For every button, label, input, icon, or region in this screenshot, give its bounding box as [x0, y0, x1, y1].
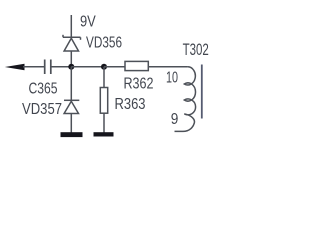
wire 9V supply lead — [70, 15, 72, 37]
svg-text:C365: C365 — [29, 81, 58, 98]
svg-text:10: 10 — [166, 69, 178, 86]
wire R363 to ground — [103, 113, 105, 132]
wire R362 to T302 pin 10 — [148, 66, 188, 68]
wire node A to VD357 — [70, 67, 72, 101]
capacitor C365 — [45, 60, 51, 75]
wire arrow to C365 — [23, 66, 44, 68]
svg-text:9: 9 — [171, 111, 179, 128]
wire VD357 anode to ground — [70, 114, 72, 133]
ground under R363 — [94, 132, 114, 136]
svg-text:R362: R362 — [124, 76, 154, 93]
svg-text:VD356: VD356 — [86, 34, 122, 51]
svg-text:VD357: VD357 — [22, 101, 62, 118]
wire VD356 anode to node A — [70, 51, 72, 67]
svg-text:9V: 9V — [80, 14, 96, 31]
resistor R362 — [125, 61, 148, 70]
diode VD357 — [64, 100, 79, 113]
svg-text:R363: R363 — [115, 96, 146, 113]
wire node B to R363 — [103, 67, 105, 88]
ground under VD357 — [61, 132, 83, 137]
diode VD356 (zener) — [63, 35, 81, 51]
node A junction dot — [68, 64, 74, 70]
resistor R363 — [100, 88, 107, 114]
node B junction dot — [101, 64, 107, 70]
svg-text:T302: T302 — [183, 41, 209, 59]
transformer T302 winding — [175, 67, 196, 132]
transformer T302 core — [201, 65, 203, 119]
arrow off-page connector — [5, 64, 25, 71]
wire C365 to node A — [51, 66, 72, 68]
wire node B to R362 — [104, 66, 125, 68]
wire node A to node B — [71, 66, 104, 68]
